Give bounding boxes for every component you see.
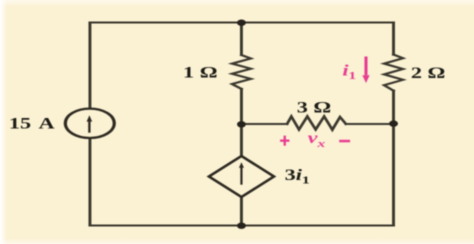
svg-text:2 Ω: 2 Ω	[411, 65, 445, 82]
svg-text:1 Ω: 1 Ω	[183, 64, 217, 81]
svg-text:3 Ω: 3 Ω	[297, 99, 331, 116]
